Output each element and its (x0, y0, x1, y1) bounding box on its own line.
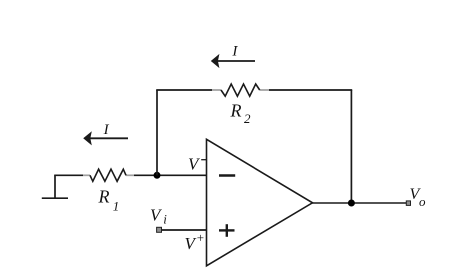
op-amp U1 (207, 139, 313, 265)
current arrow I (feedback current through R2) (211, 54, 255, 68)
op-amp non-inverting input marker (+) (219, 224, 235, 237)
terminal Vo (406, 201, 410, 206)
wire: R1 to op-amp inverting input (134, 174, 207, 176)
op-amp inverting input marker (-) (219, 174, 235, 177)
current arrow I (input current through R1) (83, 131, 128, 145)
resistor R1 (83, 169, 134, 181)
svg-text:V: V (150, 206, 163, 225)
svg-text:o: o (419, 194, 426, 209)
svg-text:I: I (103, 122, 110, 138)
wire: op-amp output (312, 202, 406, 204)
wire: feedback right vertical (350, 90, 352, 203)
svg-text:i: i (163, 211, 167, 226)
label Vi (150, 206, 167, 227)
node A (inverting input junction) (154, 172, 161, 179)
svg-text:+: + (197, 230, 204, 245)
svg-text:1: 1 (113, 198, 120, 213)
wire: Vi to op-amp non-inverting input (162, 229, 207, 231)
node B (output junction) (348, 200, 355, 207)
svg-text:2: 2 (244, 111, 251, 126)
wire: feedback top left segment (156, 89, 212, 91)
label V- (inverting input voltage) (188, 154, 206, 173)
wire: feedback left vertical (156, 90, 158, 175)
wire: ground to R1 (54, 174, 83, 176)
ground (42, 175, 68, 198)
label V+ (non-inverting input voltage) (185, 230, 205, 253)
terminal Vi (157, 227, 162, 232)
resistor R2 (212, 84, 269, 96)
svg-text:I: I (231, 43, 238, 59)
svg-text:R: R (98, 187, 110, 207)
svg-text:V: V (188, 154, 201, 173)
label Vo (410, 186, 427, 209)
svg-text:V: V (185, 234, 198, 253)
svg-text:R: R (230, 101, 242, 121)
wire: feedback top right segment (269, 89, 352, 91)
